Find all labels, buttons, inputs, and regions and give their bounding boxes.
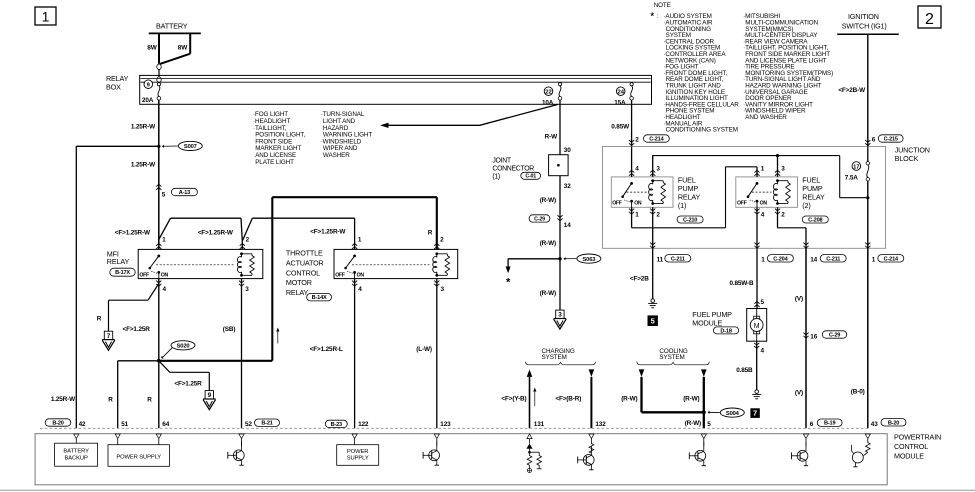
svg-text:C-208: C-208 (808, 218, 822, 224)
battery (149, 22, 201, 34)
svg-text:4: 4 (761, 347, 765, 354)
svg-text:R: R (108, 396, 113, 403)
svg-text:52: 52 (245, 421, 252, 428)
PCM pin 123 transistor (423, 421, 451, 465)
svg-text:<F>1.25R-L: <F>1.25R-L (310, 346, 343, 353)
arrow to fuse-22 systems (380, 105, 558, 129)
svg-text:NOTE: NOTE (654, 2, 671, 9)
svg-text:(2): (2) (802, 201, 810, 210)
svg-text:OFF: OFF (737, 200, 747, 206)
wire branch S007 to pin 42 (51, 146, 159, 428)
svg-text:14: 14 (810, 257, 817, 264)
charging system label (542, 348, 575, 361)
svg-text:SYSTEM: SYSTEM (542, 354, 567, 361)
wire 1.25R-W battery feed (131, 100, 159, 249)
callout list fed by fuse 9 (253, 111, 305, 166)
fuel pump relay 1 switch (612, 182, 646, 207)
fuse 22 10A (542, 82, 562, 106)
svg-text:*: * (651, 11, 655, 21)
throttle relay pin 4 (310, 279, 363, 429)
svg-text:<F>1.25R-W: <F>1.25R-W (198, 230, 234, 237)
svg-text:C-215: C-215 (884, 137, 898, 143)
svg-text:3: 3 (781, 166, 785, 173)
ground 3 (554, 310, 567, 329)
node coil bus to relay2 (776, 154, 779, 157)
ground 9 (203, 391, 216, 410)
svg-text:R-W: R-W (545, 134, 558, 141)
fuel pump relay 2 pin 3 (775, 156, 785, 177)
svg-text:2: 2 (440, 237, 444, 244)
svg-text:CONTROL: CONTROL (286, 268, 320, 277)
PCM pin 43 label (871, 419, 906, 428)
throttle relay switch (335, 255, 430, 279)
svg-text:4: 4 (358, 286, 362, 293)
cooling system bracket (637, 362, 709, 365)
throttle actuator control motor relay B-14X box (286, 248, 458, 301)
fuse 9 20A (142, 80, 161, 104)
svg-text:123: 123 (440, 421, 451, 428)
splice S020 (157, 341, 195, 363)
svg-text:(R-W): (R-W) (540, 197, 556, 204)
wire F-B-R charging to pin 132 (555, 369, 594, 428)
svg-text:8W: 8W (147, 45, 157, 52)
svg-text:3: 3 (441, 286, 445, 293)
svg-text:(V): (V) (795, 295, 803, 302)
connector C-211 exit 11 (650, 243, 691, 264)
branch S020 to ground 9 (159, 361, 210, 391)
svg-text:7: 7 (107, 333, 111, 340)
svg-text:B-20: B-20 (52, 421, 63, 427)
svg-text:51: 51 (121, 421, 128, 428)
wire coil bus from fuse 17 (652, 156, 868, 198)
svg-text:R: R (97, 315, 102, 322)
svg-text:RELAY: RELAY (107, 257, 130, 266)
node fuse17 output (866, 196, 869, 199)
svg-text:C-204: C-204 (773, 256, 788, 262)
branch to starred systems (506, 259, 560, 289)
svg-text:BLOCK: BLOCK (895, 154, 919, 163)
connector C-214 exit 1 (865, 243, 904, 264)
direction arrow up (276, 328, 279, 344)
branch S020 to pin 51 (108, 361, 159, 429)
svg-text:3: 3 (245, 286, 249, 293)
PCM pin 6 transistor (792, 434, 809, 466)
svg-text:2: 2 (635, 136, 639, 143)
ignition switch IG1 (837, 12, 899, 34)
page ref 7 (750, 408, 759, 418)
fusible link 8W right (160, 33, 190, 64)
relay box bus bars (141, 79, 651, 83)
svg-text:R: R (147, 396, 152, 403)
svg-text:17: 17 (853, 164, 859, 170)
svg-text:9: 9 (208, 392, 212, 399)
svg-text:5: 5 (707, 421, 711, 428)
svg-text:BOX: BOX (106, 83, 121, 92)
svg-text:43: 43 (871, 421, 878, 428)
PCM pin 131/132 labels (534, 421, 606, 428)
PCM pin 122 power supply (325, 420, 378, 465)
svg-text:MODULE: MODULE (894, 451, 924, 460)
svg-text:<F>2B: <F>2B (630, 276, 649, 283)
svg-text:B-21: B-21 (261, 421, 272, 427)
svg-text:<F>1.25R: <F>1.25R (123, 326, 151, 333)
throttle relay pin 3 (416, 279, 444, 429)
connector C-29 marks on V wire (803, 331, 846, 341)
svg-text:6: 6 (810, 421, 814, 428)
connector A-13 marks (156, 184, 197, 198)
svg-text:2: 2 (656, 211, 660, 218)
section marker 1 (35, 7, 56, 25)
svg-text:1.25R-W: 1.25R-W (51, 396, 76, 403)
wire F-2B to ground (630, 248, 653, 298)
svg-text:<F>(B-R): <F>(B-R) (555, 395, 581, 402)
svg-text:<F>1.25R-W: <F>1.25R-W (310, 229, 346, 236)
section marker 2 (918, 6, 941, 28)
wire R-W below joint connector (540, 176, 572, 310)
svg-text:C-214: C-214 (649, 137, 664, 143)
svg-text:BATTERY: BATTERY (63, 449, 89, 455)
relay box (106, 74, 652, 104)
svg-text:C-211: C-211 (671, 256, 685, 262)
wire to pin 64 label (147, 396, 152, 403)
ground (earth) for fuel pump (752, 390, 761, 399)
svg-text:PLATE LIGHT: PLATE LIGHT (255, 159, 294, 166)
svg-text:D-18: D-18 (720, 328, 731, 334)
svg-text:B-14X: B-14X (312, 295, 327, 301)
PCM pin 6 label (810, 419, 842, 428)
wire 0.85W-B (729, 248, 764, 308)
PCM pins 51/64 power supply (108, 421, 170, 467)
svg-text:(1): (1) (678, 201, 686, 210)
fuel pump relay 1 pin 3 (650, 156, 660, 177)
wire F-Y-B charging to pin 131 (501, 369, 536, 428)
fuel pump relay 2 switch (737, 182, 772, 207)
fuel pump relay 1 pin 2 (650, 207, 660, 248)
svg-text:CONTROL: CONTROL (894, 442, 928, 451)
svg-text:*: * (506, 277, 511, 289)
throttle relay pin 1 feed (242, 218, 362, 249)
fuel pump relay U:C-208 box (736, 176, 829, 224)
svg-text:OFF: OFF (612, 200, 622, 206)
svg-text:SYSTEM: SYSTEM (659, 354, 684, 361)
joint connector C-01 (492, 155, 568, 181)
svg-text:0.85W-B: 0.85W-B (729, 280, 754, 287)
svg-text:0.85W: 0.85W (611, 123, 630, 130)
svg-text:122: 122 (358, 421, 369, 428)
svg-text:A-13: A-13 (179, 190, 190, 196)
svg-text:MODULE: MODULE (692, 318, 722, 327)
svg-text:(1): (1) (492, 174, 500, 181)
fuel pump relay 2 coil (774, 179, 791, 205)
svg-text:ON: ON (357, 272, 365, 278)
svg-text:THROTTLE: THROTTLE (286, 248, 323, 257)
svg-text:WASHER: WASHER (323, 152, 350, 159)
powertrain control module box (35, 433, 941, 485)
svg-text:(B-0): (B-0) (851, 389, 865, 396)
svg-text:14: 14 (564, 222, 571, 229)
svg-text:(SB): (SB) (223, 326, 236, 333)
svg-text:0.85B: 0.85B (736, 367, 753, 374)
cooling system label (659, 348, 688, 361)
MFI relay coil (238, 252, 255, 276)
svg-text:BATTERY: BATTERY (156, 22, 188, 31)
junction block entry marks C-215 (865, 140, 870, 146)
svg-text:2: 2 (246, 237, 250, 244)
svg-text:6: 6 (872, 136, 876, 143)
svg-text:C-29: C-29 (534, 216, 545, 222)
wire S004 to PCM pin 5 (685, 412, 712, 428)
svg-text:(R-W): (R-W) (685, 420, 701, 427)
MFI relay switch (139, 255, 235, 279)
svg-text:POWER SUPPLY: POWER SUPPLY (116, 454, 161, 460)
svg-text:(V): (V) (795, 390, 803, 397)
splice S007 (157, 141, 202, 150)
svg-text:<F>(Y-B): <F>(Y-B) (501, 395, 526, 402)
svg-text:5: 5 (651, 316, 655, 325)
svg-text:1: 1 (872, 257, 876, 264)
fuel pump relay 2 pin 4 (754, 207, 764, 248)
svg-text:POWER: POWER (347, 449, 368, 455)
branch to ground 7 (97, 284, 159, 332)
svg-text:R: R (428, 230, 433, 237)
wire 0.85B (736, 341, 764, 390)
svg-text:M: M (754, 323, 760, 330)
svg-text:8W: 8W (178, 45, 188, 52)
svg-text:ON: ON (634, 200, 642, 206)
charging system bracket (526, 362, 596, 365)
svg-text:C-211: C-211 (826, 256, 840, 262)
connector C-211 exit 14 (803, 243, 846, 264)
svg-text:SWITCH (IG1): SWITCH (IG1) (842, 21, 887, 30)
note list column 1 (651, 2, 740, 134)
svg-text:22: 22 (545, 90, 551, 96)
PCM pin 43 regulator (852, 434, 871, 467)
throttle relay coil (433, 252, 450, 276)
svg-text:11: 11 (657, 257, 664, 264)
splice S004 (702, 408, 745, 417)
svg-text:1: 1 (761, 257, 765, 264)
svg-text:1.25R-W: 1.25R-W (131, 123, 156, 130)
wire F-2B-W ignition feed (838, 34, 903, 146)
fuse 17 7.5A (845, 147, 870, 249)
fuel pump relay 1 pin 1 (629, 207, 639, 228)
junction block (603, 146, 930, 249)
svg-text:<F>2B-W: <F>2B-W (838, 87, 866, 94)
fuel pump module D-18 (692, 309, 766, 342)
svg-text:64: 64 (162, 421, 169, 428)
connector C-204 exit 1 (754, 243, 793, 264)
svg-text:B-23: B-23 (331, 422, 342, 428)
PCM pin 131 diode network (526, 434, 541, 473)
page ref 5 (648, 315, 658, 326)
svg-text:B-19: B-19 (824, 421, 835, 427)
svg-text:4: 4 (635, 166, 639, 173)
svg-text:1: 1 (761, 166, 765, 173)
MFI relay pin 2 feed (115, 218, 250, 249)
wire B-0 to PCM pin 43 (851, 248, 868, 428)
svg-text:S007: S007 (184, 144, 197, 150)
svg-text:5: 5 (761, 299, 765, 306)
connector C-29 marks (529, 215, 571, 229)
PCM pin 5 transistor (689, 434, 706, 466)
page bottom rule (0, 489, 975, 491)
wire S020 to throttle pin 2 (159, 197, 437, 361)
svg-text:SUPPLY: SUPPLY (347, 456, 369, 462)
svg-text:132: 132 (595, 421, 606, 428)
svg-text:1.25R-W: 1.25R-W (131, 161, 156, 168)
fuel pump relay 2 pin 2 (775, 207, 806, 248)
svg-text:C-29: C-29 (829, 333, 840, 339)
PCM connector dashed line (40, 427, 868, 429)
inline connector battery-relay box (157, 64, 161, 85)
wire R-W cooling right (683, 369, 706, 412)
svg-text:42: 42 (79, 421, 86, 428)
svg-text:<F>1.25R: <F>1.25R (174, 381, 202, 388)
svg-text:MOTOR: MOTOR (286, 278, 312, 287)
MFI relay pin 4 (156, 279, 166, 429)
wire V to PCM pin 6 (795, 248, 806, 428)
svg-text:CONNECTOR: CONNECTOR (492, 166, 534, 173)
PCM pin 52 transistor (228, 419, 280, 465)
svg-text:OFF: OFF (139, 272, 149, 278)
svg-text:1: 1 (162, 237, 166, 244)
svg-text:5: 5 (162, 191, 166, 198)
svg-text:(R-W): (R-W) (621, 395, 637, 402)
svg-text:15A: 15A (614, 99, 626, 106)
svg-text:POWERTRAIN: POWERTRAIN (894, 433, 941, 442)
svg-text:3: 3 (558, 312, 562, 319)
svg-text:7: 7 (753, 409, 757, 418)
svg-text:4: 4 (163, 286, 167, 293)
PCM pin 42 battery backup (45, 419, 97, 466)
svg-text:20A: 20A (142, 97, 154, 104)
svg-text:ACTUATOR: ACTUATOR (286, 258, 324, 267)
svg-text:(R-W): (R-W) (683, 395, 699, 402)
svg-text:1: 1 (42, 9, 50, 25)
svg-text:<F>1.25R-W: <F>1.25R-W (115, 230, 151, 237)
fuel pump relay 1 pin 4 (629, 147, 639, 177)
svg-text:C-210: C-210 (683, 218, 697, 224)
svg-text:ON: ON (760, 200, 768, 206)
wire R-W from fuse 22 (545, 100, 572, 155)
svg-text:C-01: C-01 (525, 174, 536, 180)
PCM pin 132 transistor with resistor (578, 434, 594, 470)
ground (earth) for relay 1 coil (648, 299, 657, 308)
svg-text:JOINT: JOINT (492, 158, 511, 165)
svg-text:1: 1 (635, 211, 639, 218)
svg-text:OFF: OFF (335, 272, 345, 278)
svg-text:BACKUP: BACKUP (64, 455, 87, 461)
svg-text:131: 131 (534, 421, 545, 428)
throttle relay pin 2 (434, 237, 444, 249)
fuel pump relay 1 coil (649, 179, 666, 205)
svg-text:24: 24 (617, 90, 624, 96)
svg-text:B-20: B-20 (888, 420, 899, 426)
svg-text:AND WASHER: AND WASHER (745, 114, 787, 121)
svg-text:S020: S020 (177, 344, 190, 350)
MFI relay B-17X box (107, 249, 263, 278)
svg-text:ON: ON (161, 272, 169, 278)
splice S063 (558, 254, 601, 263)
svg-text:2: 2 (925, 11, 934, 28)
svg-text:7.5A: 7.5A (845, 175, 858, 182)
wire 0.85W (611, 100, 669, 146)
svg-text:S063: S063 (583, 257, 597, 263)
fuel pump relay 2 pin 1 (754, 166, 764, 177)
svg-text:S004: S004 (726, 411, 740, 417)
callout list fed by fuse 22 (321, 111, 373, 159)
svg-text:(R-W): (R-W) (540, 290, 556, 297)
svg-text:16: 16 (810, 334, 817, 341)
svg-text:2: 2 (781, 211, 785, 218)
wire relay1 pin1 to relay2 pin1 (632, 167, 757, 228)
svg-text:IGNITION: IGNITION (848, 12, 879, 21)
MFI relay pin 3 (223, 279, 249, 429)
svg-text:4: 4 (761, 211, 765, 218)
fuel pump relay U:C-210 box (611, 176, 703, 224)
svg-text:32: 32 (564, 183, 571, 190)
svg-text:RELAY: RELAY (286, 288, 309, 297)
svg-text:1: 1 (358, 237, 362, 244)
wire R-W cooling left (621, 369, 704, 412)
MFI relay pin 1 (156, 237, 166, 249)
svg-text:(L-W): (L-W) (416, 346, 432, 353)
fuse 24 15A (614, 82, 633, 106)
note list column 2 (743, 13, 833, 121)
svg-text:CONDITIONING SYSTEM: CONDITIONING SYSTEM (666, 127, 738, 134)
svg-text:(R-W): (R-W) (540, 240, 556, 247)
junction block entry marks C-214 (629, 140, 634, 146)
ground 7 (102, 326, 150, 350)
svg-text:3: 3 (656, 166, 660, 173)
svg-text:30: 30 (564, 147, 571, 154)
fusible link 8W left (147, 33, 159, 63)
svg-text:C-214: C-214 (884, 256, 899, 262)
svg-text:B-17X: B-17X (115, 270, 130, 276)
